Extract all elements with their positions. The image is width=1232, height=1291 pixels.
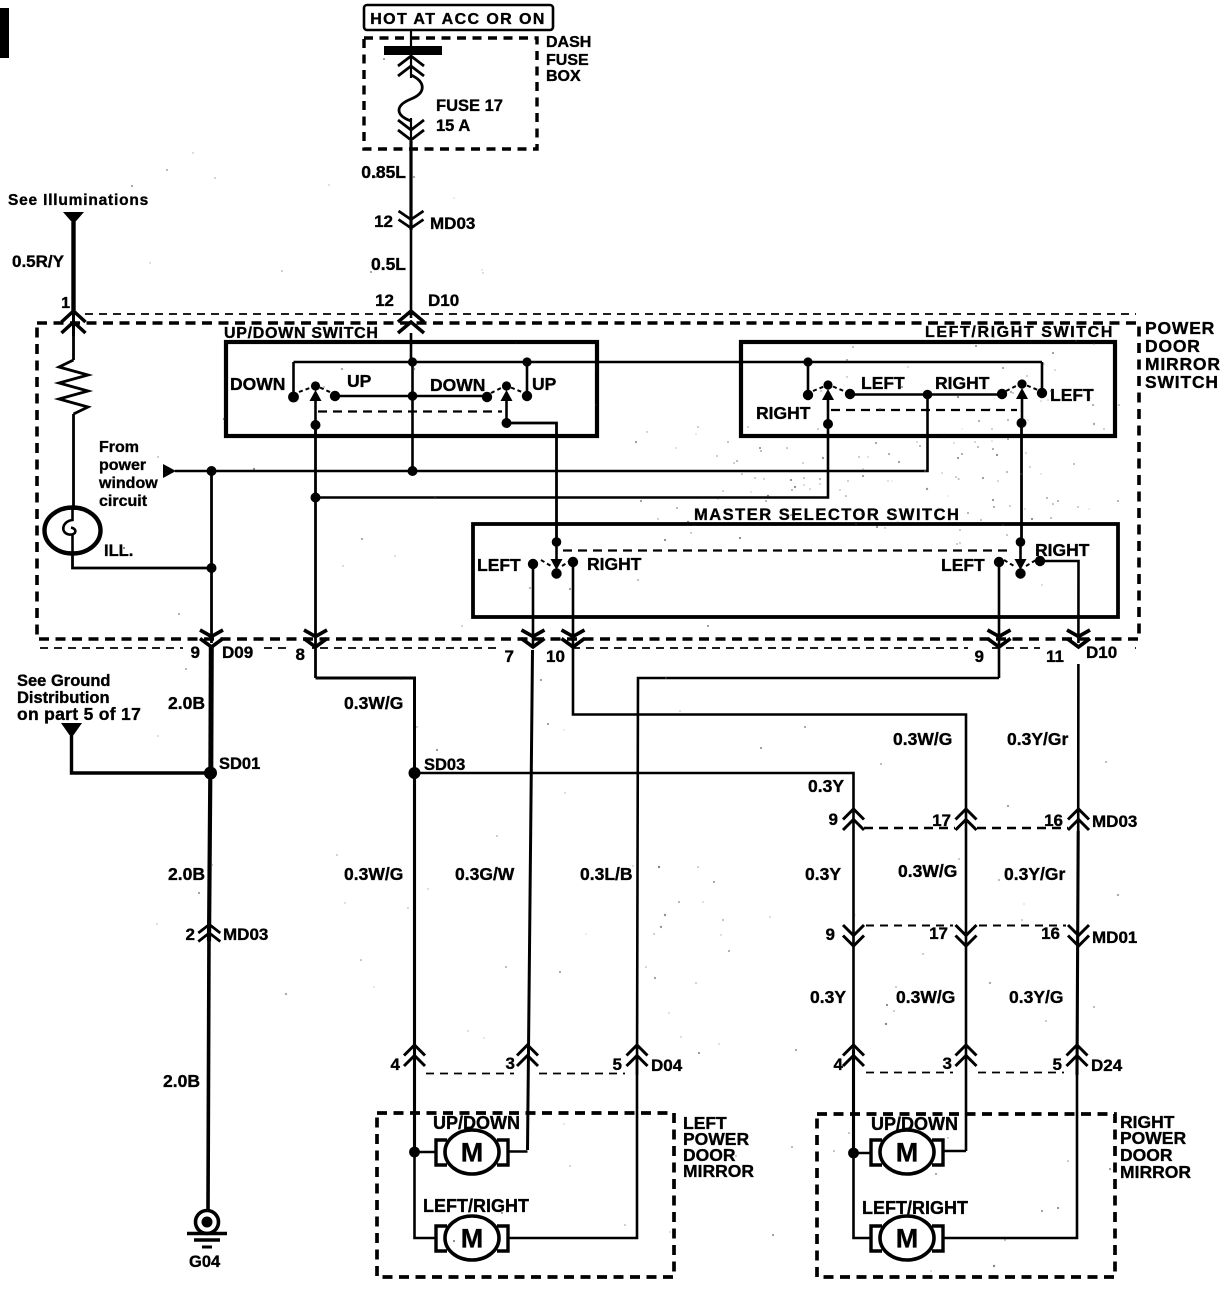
svg-text:G04: G04 <box>189 1253 221 1271</box>
svg-text:power: power <box>99 457 146 474</box>
connector pin 9 (D10) chevrons <box>988 630 1011 647</box>
svg-text:MD03: MD03 <box>430 214 475 233</box>
wire right U/D motor to pin 3 <box>943 1150 966 1153</box>
LEFT/RIGHT switch box <box>741 342 1115 436</box>
connector row dashes D04 <box>426 1073 514 1075</box>
connector MD03 pin 17 chevrons <box>956 809 977 830</box>
connector MD01 pin 9 chevrons <box>843 925 864 946</box>
wiper U/D switch 2 <box>502 381 511 390</box>
wire master-right RIGHT contact to pin 11 <box>1040 561 1079 831</box>
connector row dashes D24 <box>866 1072 953 1074</box>
left power door mirror box (dashed outline) <box>377 1113 674 1277</box>
svg-text:9: 9 <box>826 925 835 944</box>
UP/DOWN switch box <box>226 342 597 436</box>
wiper U/D switch 1 (to pin 8) <box>311 381 320 390</box>
dashed contact link U/D sw1 <box>299 388 311 393</box>
junction dot power window feed <box>923 390 933 400</box>
svg-text:circuit: circuit <box>99 493 148 510</box>
junction dot feed/D09 column <box>207 466 217 476</box>
svg-text:LEFT/RIGHT: LEFT/RIGHT <box>423 1196 529 1216</box>
svg-text:D10: D10 <box>428 291 459 310</box>
svg-text:10: 10 <box>546 647 565 666</box>
svg-text:17: 17 <box>929 924 948 943</box>
wire pin 7 down to D04 pin 3 <box>528 650 533 1150</box>
svg-text:0.3Y/Gr: 0.3Y/Gr <box>1007 729 1068 749</box>
junction dot L/R wiper1 stem <box>823 419 833 429</box>
svg-text:LEFT: LEFT <box>861 373 905 393</box>
wire SD03 to 0.3Y column <box>415 773 854 1075</box>
power door mirror switch box (dashed outline) <box>37 323 1139 639</box>
right power door mirror box (dashed outline) <box>817 1114 1115 1277</box>
svg-text:2.0B: 2.0B <box>168 864 205 884</box>
svg-text:SWITCH: SWITCH <box>1145 372 1219 392</box>
junction dot rail/left contact drop <box>803 357 812 366</box>
wire resistor to lamp <box>72 414 75 510</box>
connector D04 pin 4 chevrons <box>404 1045 425 1066</box>
connector row line bottom (thin dashed) <box>40 647 1136 649</box>
svg-text:2.0B: 2.0B <box>163 1071 200 1091</box>
junction dot center feed on contact wire <box>408 391 418 401</box>
dashed contact link L/R sw1 right <box>833 387 845 392</box>
junction dot wiper2 stem <box>502 418 512 428</box>
wire master-right LEFT contact to pin 9 <box>998 562 1001 678</box>
svg-text:15 A: 15 A <box>436 117 470 135</box>
svg-text:UP: UP <box>347 371 372 391</box>
dashed contact link L/R sw2 right <box>1027 386 1039 391</box>
svg-text:From: From <box>99 439 139 456</box>
wire UP contact sw2 up to rail <box>526 362 529 396</box>
svg-text:D24: D24 <box>1091 1056 1123 1075</box>
dashed contact link master right <box>1004 560 1014 566</box>
svg-text:LEFT/RIGHT SWITCH: LEFT/RIGHT SWITCH <box>925 324 1114 341</box>
wire center feed down to power window junction <box>411 362 414 471</box>
master selector right wiper (down) <box>1016 537 1025 546</box>
dashed contact link U/D sw1 right <box>320 388 332 394</box>
svg-text:DOWN: DOWN <box>230 374 285 394</box>
wire SD03 down to D04 pin 4 <box>413 773 416 1152</box>
wire MD03-16 to D24 pin 5 <box>1077 831 1078 1075</box>
svg-text:UP: UP <box>532 374 557 394</box>
arrow from power window circuit <box>163 464 176 478</box>
svg-text:RIGHT: RIGHT <box>935 373 990 393</box>
svg-text:window: window <box>98 475 158 492</box>
wire junction to pin 9 D09 <box>210 471 213 664</box>
svg-text:0.3Y: 0.3Y <box>808 776 844 796</box>
svg-text:HOT AT ACC OR ON: HOT AT ACC OR ON <box>370 11 546 28</box>
svg-text:BOX: BOX <box>546 68 581 85</box>
junction dot feed/center column <box>408 466 418 476</box>
junction dot right mirror pin4 <box>848 1148 859 1159</box>
wire fuse box to connector MD03, 0.85L <box>409 141 412 230</box>
wire 0.5R/Y down to pin 1 <box>71 222 75 314</box>
wire master-left RIGHT contact to pin 10 <box>573 562 966 1151</box>
wire D24 pin4 into mirror <box>852 1050 855 1153</box>
connector MD03 pin 9 chevrons <box>843 809 864 830</box>
wire L/R wiper2 stem to master selector <box>1020 423 1023 545</box>
connector D04 pin 3 chevrons <box>517 1045 538 1066</box>
wire rail to RIGHT contact (sw1) <box>807 362 810 392</box>
dash fuse box (dashed outline) <box>364 38 537 149</box>
junction dot rail/center feed <box>408 357 417 366</box>
feed rail (UP/DOWN + LEFT/RIGHT switches) <box>294 361 1043 364</box>
contact dot LEFT (L/R sw1) <box>845 389 855 399</box>
svg-text:M: M <box>461 1138 484 1168</box>
resistor (illumination) <box>59 360 88 414</box>
wire lamp to junction on D09 branch <box>73 552 212 568</box>
svg-text:9: 9 <box>975 647 984 666</box>
svg-text:11: 11 <box>1046 647 1064 666</box>
wire D10 pin12 feed into box <box>410 333 413 362</box>
wiper L/R switch 2 <box>1017 379 1026 388</box>
svg-text:LEFT/RIGHT: LEFT/RIGHT <box>862 1198 968 1218</box>
junction dot master left wiper <box>552 537 562 547</box>
motor M right mirror UP/DOWN <box>880 1130 934 1174</box>
wire pin4 column to right L/R motor <box>854 1153 873 1238</box>
arrow from See Illuminations <box>63 212 84 224</box>
svg-text:0.3Y: 0.3Y <box>810 987 846 1007</box>
svg-text:0.3W/G: 0.3W/G <box>898 861 957 881</box>
svg-text:MD01: MD01 <box>1092 928 1137 947</box>
svg-text:2: 2 <box>186 925 195 944</box>
svg-text:0.5L: 0.5L <box>371 254 406 274</box>
svg-text:4: 4 <box>391 1055 401 1074</box>
connector pin 11 chevrons <box>1067 630 1090 647</box>
connector MD01 pin 17 chevrons <box>956 925 977 946</box>
mechanical link dashes master selector <box>563 549 1013 551</box>
svg-text:0.3L/B: 0.3L/B <box>580 864 633 884</box>
svg-text:UP/DOWN SWITCH: UP/DOWN SWITCH <box>224 325 379 342</box>
svg-text:LEFT: LEFT <box>941 555 985 575</box>
contact dot RIGHT (L/R sw2) <box>997 389 1007 399</box>
wiper L/R switch 1 <box>823 380 832 389</box>
svg-text:DOOR: DOOR <box>1145 336 1201 356</box>
svg-text:3: 3 <box>943 1054 952 1073</box>
power source label box HOT AT ACC OR ON <box>364 5 553 30</box>
svg-text:See Ground: See Ground <box>17 672 111 690</box>
svg-text:M: M <box>461 1224 484 1254</box>
motor M left mirror UP/DOWN <box>445 1130 499 1174</box>
junction dot left mirror pin4 <box>409 1147 420 1158</box>
connector row dashes MD03 <box>864 827 955 830</box>
svg-text:RIGHT: RIGHT <box>756 403 811 423</box>
fuse 17 bus bar <box>384 46 442 55</box>
svg-text:RIGHT: RIGHT <box>587 554 642 574</box>
contact dot UP (switch 1) <box>330 391 340 401</box>
connector D10 pin 12 chevrons (box edge) <box>398 311 424 333</box>
svg-text:0.3W/G: 0.3W/G <box>344 864 403 884</box>
svg-text:MIRROR: MIRROR <box>1120 1162 1191 1182</box>
wire rail to DOWN contact (left) <box>292 362 295 394</box>
dashed contact link L/R sw2 <box>1006 386 1017 392</box>
wire L/R wiper1 stem to pin8 column <box>316 424 829 498</box>
svg-text:DASH: DASH <box>546 34 591 51</box>
svg-text:See Illuminations: See Illuminations <box>8 192 149 209</box>
connector D24 pin 3 chevrons <box>956 1045 977 1066</box>
contact dot LEFT (L/R sw2) <box>1037 388 1047 398</box>
fuse F17 element (wavy line) <box>399 75 422 121</box>
illumination lamp ILL. <box>45 508 101 554</box>
connector MD03 pin 2 chevrons <box>198 925 220 942</box>
svg-text:16: 16 <box>1041 924 1060 943</box>
junction dot wiper1 stem <box>311 420 321 430</box>
svg-text:0.3G/W: 0.3G/W <box>455 864 515 884</box>
wire pin9 to SD01 to MD03 <box>208 645 214 774</box>
fuse 17 top connector chevrons <box>398 56 424 76</box>
svg-text:12: 12 <box>374 212 393 231</box>
svg-text:FUSE 17: FUSE 17 <box>436 97 503 115</box>
dashed contact link master left <box>541 560 551 566</box>
svg-text:8: 8 <box>296 645 305 664</box>
svg-text:MD03: MD03 <box>1092 812 1137 831</box>
connector pin 8 chevrons <box>304 630 327 647</box>
master selector left wiper (down) <box>552 537 561 546</box>
svg-text:DOWN: DOWN <box>430 375 485 395</box>
svg-text:9: 9 <box>191 643 200 662</box>
dashed contact link master left b <box>562 561 570 566</box>
svg-text:0.85L: 0.85L <box>361 162 406 182</box>
connector pin 10 chevrons <box>562 630 585 647</box>
connector row line top (D10, thin dashed) <box>85 313 1136 315</box>
wire ground distribution to SD01 <box>72 736 208 773</box>
svg-text:4: 4 <box>834 1055 844 1074</box>
connector pin 7 chevrons <box>522 630 545 647</box>
connector D04 pin 5 chevrons <box>627 1045 648 1066</box>
svg-text:D04: D04 <box>651 1056 683 1075</box>
wire MD03 to ground G04 <box>208 930 209 1212</box>
svg-text:5: 5 <box>613 1055 622 1074</box>
scan artifact bar top-left <box>0 8 9 58</box>
arrow to ground distribution <box>61 723 82 738</box>
svg-text:0.3Y/G: 0.3Y/G <box>1009 987 1063 1007</box>
connector D24 pin 4 chevrons <box>843 1045 864 1066</box>
connector D24 pin 5 chevrons <box>1067 1045 1088 1066</box>
svg-text:M: M <box>896 1224 919 1254</box>
svg-text:9: 9 <box>829 810 838 829</box>
svg-text:LEFT: LEFT <box>1050 385 1094 405</box>
wire master-left LEFT contact to pin 7 <box>532 564 535 655</box>
wire wiper2 stem jog to master selector <box>507 423 557 545</box>
master selector switch box <box>473 524 1118 617</box>
wire wiper1 stem to pin 8 <box>314 425 317 678</box>
svg-text:POWER: POWER <box>1145 318 1215 338</box>
wire left L/R motor to pin 5 <box>508 1055 637 1238</box>
svg-text:0.5R/Y: 0.5R/Y <box>12 252 65 271</box>
junction dot rail/up contact drop <box>522 357 531 366</box>
contact dot DOWN (switch 2) <box>482 392 492 402</box>
contact dot LEFT (master left) <box>528 559 538 569</box>
junction dot SD01 <box>204 767 217 780</box>
wire LEFT contact sw1 to RIGHT contact sw2 <box>850 393 1002 396</box>
wire pin 9 (master) jog to 0.3L/B column <box>637 678 999 1075</box>
scan speckle noise <box>119 58 1120 1272</box>
dashed contact link master right b <box>1026 560 1036 566</box>
svg-text:0.3Y: 0.3Y <box>805 864 841 884</box>
svg-text:0.3W/G: 0.3W/G <box>896 987 955 1007</box>
svg-text:LEFT: LEFT <box>477 555 521 575</box>
svg-text:MASTER SELECTOR SWITCH: MASTER SELECTOR SWITCH <box>694 506 960 524</box>
dashed contact link L/R sw1 <box>813 387 824 392</box>
connector MD01 pin 16 chevrons <box>1068 925 1089 946</box>
dashed contact link U/D sw2 <box>491 388 502 394</box>
svg-text:SD01: SD01 <box>219 755 260 773</box>
connector pin 9 D09 chevrons <box>200 630 223 647</box>
wire contact UP sw1 to contact DOWN sw2 <box>335 395 487 398</box>
svg-text:D09: D09 <box>222 643 253 662</box>
mechanical link dashes L/R switches <box>831 409 1017 411</box>
contact dot RIGHT (master right) <box>1035 556 1045 566</box>
connector row dashes MD01 <box>866 925 953 927</box>
contact dot RIGHT (master left) <box>568 557 578 567</box>
wire LEFT contact sw2 up to rail end <box>1041 362 1044 393</box>
connector MD03 pin 12 (in-line) <box>399 211 424 228</box>
wire to right U/D motor <box>854 1152 873 1155</box>
svg-text:12: 12 <box>375 291 394 310</box>
contact dot RIGHT (L/R sw1) <box>803 390 813 400</box>
junction dot master right wiper <box>1016 537 1026 547</box>
wire left U/D motor to pin 3 <box>508 1150 528 1153</box>
svg-text:7: 7 <box>505 647 514 666</box>
wire pin4 column to L/R motor <box>415 1152 438 1238</box>
wire MD03 to D10, 0.5L <box>410 205 413 318</box>
wire from HOT box into fuse box <box>410 30 412 78</box>
svg-text:5: 5 <box>1053 1055 1062 1074</box>
junction dot L/R wiper2 stem <box>1017 418 1027 428</box>
wire pin 8 to SD03 column <box>316 678 415 773</box>
svg-text:0.3W/G: 0.3W/G <box>893 729 952 749</box>
mechanical link dashes U/D switches <box>318 410 502 412</box>
svg-text:M: M <box>896 1138 919 1168</box>
contact dot LEFT (master right) <box>994 557 1004 567</box>
junction dot SD03 <box>409 767 421 779</box>
ground symbol G04 <box>196 1211 219 1234</box>
svg-text:MD03: MD03 <box>223 925 268 944</box>
svg-text:0.3Y/Gr: 0.3Y/Gr <box>1004 864 1065 884</box>
svg-text:3: 3 <box>506 1054 515 1073</box>
contact dot UP (switch 2) <box>522 391 532 401</box>
svg-text:MIRROR: MIRROR <box>1145 354 1221 374</box>
wire right L/R motor to pin 5 <box>943 1055 1077 1238</box>
dashed contact link U/D sw2 right <box>511 388 523 393</box>
svg-text:on part 5 of 17: on part 5 of 17 <box>17 704 141 724</box>
svg-text:FUSE: FUSE <box>546 52 589 69</box>
svg-text:ILL.: ILL. <box>104 542 133 560</box>
svg-text:2.0B: 2.0B <box>168 693 205 713</box>
motor M right mirror LEFT/RIGHT <box>880 1216 934 1260</box>
svg-text:0.3W/G: 0.3W/G <box>344 693 403 713</box>
svg-text:SD03: SD03 <box>424 756 465 774</box>
wire power window feed to LEFT/RIGHT switch <box>175 396 928 472</box>
connector D10 pin 1 chevrons (box edge) <box>62 311 86 333</box>
fuse 17 bottom connector chevrons <box>398 120 424 140</box>
wire pin1 to resistor <box>72 334 75 360</box>
junction dot lamp/D09 branch <box>207 563 217 573</box>
connector MD03 pin 16 chevrons <box>1068 809 1089 830</box>
svg-text:MIRROR: MIRROR <box>683 1161 754 1181</box>
wire to left U/D motor <box>415 1151 438 1154</box>
contact dot DOWN (switch 1) <box>288 392 299 403</box>
motor M left mirror LEFT/RIGHT <box>445 1216 499 1260</box>
white mask behind bottom pin labels <box>183 643 259 664</box>
svg-text:1: 1 <box>61 295 70 312</box>
junction dot pin8 column / L-R wiper wire <box>311 493 321 503</box>
svg-text:D10: D10 <box>1086 643 1117 662</box>
